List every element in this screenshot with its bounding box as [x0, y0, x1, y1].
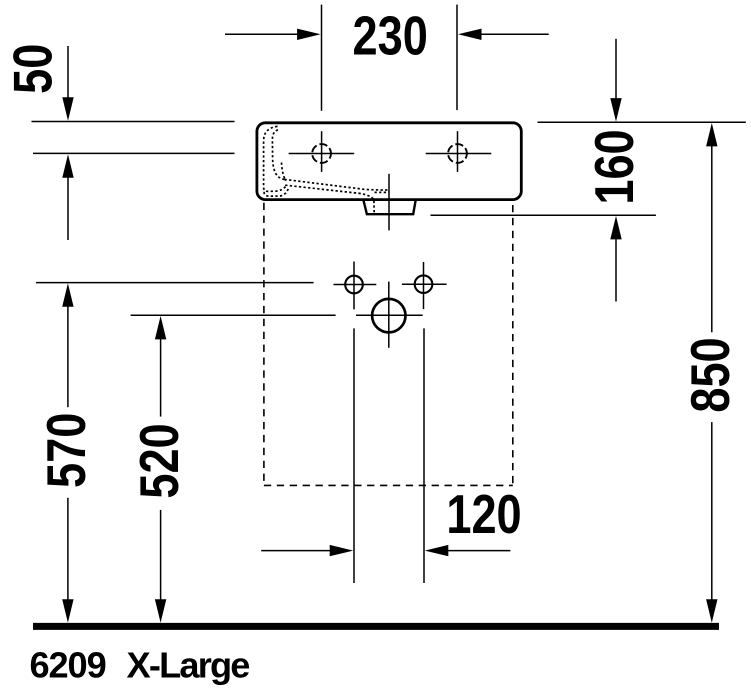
extension line 120 right: [423, 328, 425, 583]
pedestal dashed outline bottom: [264, 484, 513, 486]
svg-text:160: 160: [584, 129, 645, 204]
arrowhead 50 down: [62, 97, 73, 121]
arrowhead 230 left: [297, 29, 321, 40]
svg-text:50: 50: [3, 44, 64, 94]
arrowhead 520 up: [155, 316, 166, 340]
arrowhead 850 down: [706, 599, 717, 623]
arrowhead 160 up: [610, 216, 621, 240]
drain boss trapezoid: [364, 201, 416, 215]
arrowhead 160 down: [610, 98, 621, 122]
dimension line 230 left arrow shaft: [225, 33, 300, 35]
drain vertical centerline: [388, 174, 390, 231]
dimension 50 lower arrow shaft: [67, 174, 69, 240]
arrowhead 230 right: [458, 29, 482, 40]
drain bottom reference line: [431, 214, 656, 216]
faucet hole left dashed circle: [312, 144, 331, 163]
svg-text:520: 520: [129, 423, 190, 498]
svg-text:230: 230: [353, 6, 428, 67]
svg-text:6209X-Large: 6209X-Large: [30, 645, 250, 686]
extension line 120 left: [353, 328, 355, 583]
faucet hole right dashed circle: [448, 144, 467, 163]
dimension line 230 right arrow shaft: [479, 33, 549, 35]
faucet hole axis line left: [33, 152, 235, 154]
top reference line right: [538, 121, 746, 123]
mounting hole right horizontal centerline: [402, 283, 447, 285]
pedestal dashed outline right: [512, 205, 514, 485]
pedestal dashed outline left: [263, 203, 265, 486]
basin floor lower continuation dotted: [375, 191, 390, 193]
arrowhead 520 down: [155, 599, 166, 623]
arrowhead 570 up: [62, 283, 73, 307]
basin floor lower dotted: [285, 185, 374, 213]
dimension line 120 right arrow shaft: [444, 550, 510, 552]
faucet hole left vertical centerline: [321, 131, 323, 172]
extension line 230 right: [456, 5, 458, 111]
mounting hole left horizontal centerline: [334, 284, 377, 286]
dimension 850 line lower part: [711, 422, 713, 603]
faucet hole right vertical centerline: [457, 131, 459, 172]
drain hole horizontal centerline: [356, 314, 423, 316]
basin floor upper dotted: [285, 179, 390, 190]
dimension 50 upper arrow shaft: [67, 46, 69, 102]
dimension line 120 left arrow shaft: [261, 550, 334, 552]
floor baseline: [33, 623, 719, 630]
svg-text:850: 850: [680, 337, 741, 412]
arrowhead 570 down: [62, 599, 73, 623]
faucet hole right horizontal centerline: [426, 153, 492, 155]
basin section profile outer wall dotted: [264, 126, 286, 191]
arrowhead 120 right: [330, 545, 354, 556]
drain hole vertical centerline: [388, 282, 390, 348]
extension line 230 left: [321, 5, 323, 111]
dimension 520 line upper part: [160, 336, 162, 417]
mounting hole right circle: [415, 275, 433, 293]
mounting hole right vertical centerline: [423, 262, 425, 309]
dimension 570 line lower part: [67, 498, 69, 603]
mounting hole left circle: [345, 276, 363, 294]
svg-text:120: 120: [446, 484, 521, 545]
dimension 570 line upper part: [67, 303, 69, 407]
basin section profile outer bottom dotted: [264, 189, 288, 196]
basin section profile inner curve dotted: [282, 163, 286, 181]
faucet hole left horizontal centerline: [289, 153, 355, 155]
arrowhead 850 up: [706, 123, 717, 146]
washbasin outline: [257, 123, 521, 200]
dimension 850 line upper part: [711, 142, 713, 332]
dimension 520 line lower part: [160, 510, 162, 603]
arrowhead 50 up: [62, 154, 73, 178]
arrowhead 120 left: [425, 545, 449, 556]
drain hole circle: [372, 299, 405, 332]
dimension 160 upper arrow shaft: [615, 39, 617, 101]
dimension 160 lower arrow shaft: [615, 236, 617, 302]
mounting hole left vertical centerline: [353, 262, 355, 310]
reference line 520: [131, 314, 336, 316]
basin section profile inner wall dotted: [272, 130, 284, 180]
top reference line left: [32, 121, 235, 123]
svg-text:570: 570: [36, 413, 97, 488]
reference line 570: [36, 282, 314, 284]
